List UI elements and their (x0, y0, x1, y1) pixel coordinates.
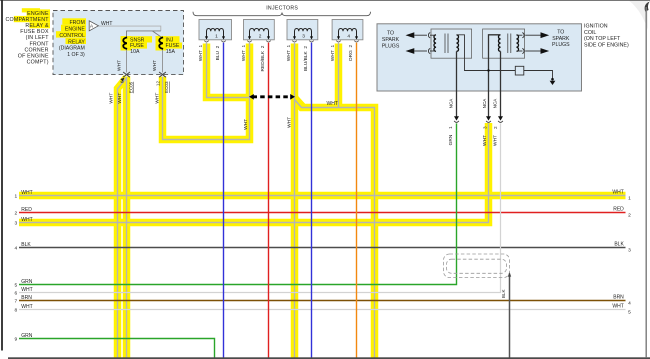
svg-text:BLK: BLK (501, 289, 506, 299)
svg-text:(DIAGRAM: (DIAGRAM (59, 46, 85, 52)
svg-text:WHT: WHT (101, 21, 112, 27)
svg-text:2: 2 (14, 211, 17, 217)
svg-text:1: 1 (628, 196, 631, 202)
svg-text:WHT: WHT (612, 190, 623, 196)
svg-text:NCA: NCA (448, 98, 453, 109)
svg-text:WHT: WHT (287, 117, 293, 128)
svg-text:WHT: WHT (109, 93, 115, 104)
svg-text:TO: TO (557, 29, 564, 35)
svg-text:1: 1 (14, 194, 17, 200)
svg-text:6: 6 (14, 291, 17, 297)
svg-text:RELAY: RELAY (68, 39, 85, 45)
svg-text:TO: TO (387, 31, 394, 37)
svg-text:5: 5 (14, 283, 17, 289)
svg-text:WHT: WHT (154, 93, 160, 104)
svg-text:SPARK: SPARK (552, 36, 570, 42)
svg-text:RED: RED (613, 207, 624, 213)
svg-text:WHT 1: WHT 1 (286, 45, 292, 62)
svg-text:WHT: WHT (117, 93, 123, 104)
svg-text:BRN: BRN (21, 295, 32, 301)
svg-text:RELAY &: RELAY & (25, 23, 49, 29)
svg-text:GRN: GRN (21, 279, 33, 285)
svg-text:3: 3 (302, 34, 305, 40)
svg-text:WHT: WHT (243, 119, 249, 130)
svg-text:15A: 15A (166, 49, 176, 55)
svg-text:RED: RED (21, 207, 32, 213)
svg-text:WHT 1: WHT 1 (330, 45, 336, 62)
svg-text:10A: 10A (130, 49, 140, 55)
svg-text:WHT: WHT (21, 304, 32, 310)
svg-text:1 OF 3): 1 OF 3) (67, 52, 85, 58)
svg-text:FUSE BOX: FUSE BOX (20, 29, 49, 35)
svg-text:(IN LEFT: (IN LEFT (26, 35, 50, 41)
svg-text:COIL: COIL (584, 30, 596, 36)
svg-text:3: 3 (628, 248, 631, 254)
svg-text:SPARK: SPARK (382, 37, 400, 43)
svg-text:GRN: GRN (448, 134, 454, 145)
svg-text:NCA: NCA (493, 98, 498, 109)
svg-text:WHT 1: WHT 1 (241, 45, 247, 62)
svg-text:BLK: BLK (614, 242, 624, 248)
svg-text:ENGINE: ENGINE (65, 27, 85, 33)
svg-text:WHT: WHT (21, 217, 32, 223)
svg-text:2: 2 (628, 213, 631, 219)
svg-text:4: 4 (14, 246, 17, 252)
svg-text:PLUGS: PLUGS (552, 42, 570, 48)
svg-text:BLU 2: BLU 2 (215, 45, 221, 60)
svg-text:FROM: FROM (70, 20, 85, 26)
svg-text:7: 7 (14, 299, 17, 305)
svg-text:BLK: BLK (21, 242, 31, 248)
svg-text:NCA: NCA (482, 98, 487, 109)
svg-text:PLUGS: PLUGS (382, 43, 400, 49)
svg-text:EC03: EC03 (164, 81, 169, 93)
svg-text:WHT: WHT (482, 135, 488, 146)
svg-text:CORNER: CORNER (25, 47, 49, 53)
svg-text:RED/BLK 2: RED/BLK 2 (260, 45, 266, 71)
svg-text:WHT: WHT (21, 287, 32, 293)
svg-text:WHT: WHT (117, 60, 123, 71)
svg-text:WHT: WHT (327, 101, 338, 107)
svg-text:ORG 2: ORG 2 (348, 45, 354, 62)
svg-text:(ON TOP LEFT: (ON TOP LEFT (584, 36, 621, 42)
svg-text:8: 8 (14, 308, 17, 314)
svg-text:EC05: EC05 (128, 81, 133, 93)
svg-text:WHT: WHT (21, 190, 32, 196)
svg-text:12: 12 (156, 81, 161, 87)
svg-text:WHT: WHT (493, 135, 499, 146)
svg-text:WHT 1: WHT 1 (198, 45, 204, 62)
svg-text:COMPARTMENT: COMPARTMENT (5, 17, 49, 23)
svg-text:OF ENGINE: OF ENGINE (18, 54, 49, 60)
svg-text:6: 6 (119, 80, 124, 83)
svg-text:BLU/BLK 2: BLU/BLK 2 (303, 46, 309, 71)
svg-text:WHT: WHT (152, 60, 158, 71)
svg-text:GRN: GRN (21, 333, 33, 339)
svg-text:4: 4 (347, 34, 350, 40)
svg-text:5: 5 (628, 310, 631, 316)
svg-text:BRN: BRN (613, 295, 624, 301)
svg-text:ENGINE: ENGINE (27, 11, 49, 17)
svg-text:9: 9 (14, 337, 17, 343)
svg-text:CONTROL: CONTROL (59, 33, 84, 39)
svg-text:SIDE OF ENGINE): SIDE OF ENGINE) (584, 43, 629, 49)
svg-text:IGNITION: IGNITION (584, 23, 608, 29)
svg-text:INJECTORS: INJECTORS (266, 6, 298, 12)
svg-text:4: 4 (628, 301, 631, 307)
svg-text:2: 2 (259, 34, 262, 40)
svg-text:1: 1 (215, 34, 218, 40)
svg-text:COMPT): COMPT) (27, 60, 49, 66)
svg-text:FRONT: FRONT (29, 41, 49, 47)
svg-text:WHT: WHT (612, 304, 623, 310)
svg-text:3: 3 (14, 221, 17, 227)
